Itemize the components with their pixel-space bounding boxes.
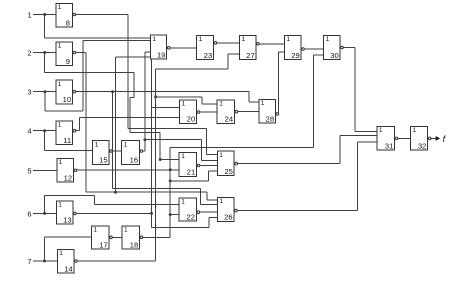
svg-text:31: 31 — [385, 141, 393, 150]
svg-text:1: 1 — [287, 36, 291, 43]
svg-text:27: 27 — [246, 51, 254, 60]
svg-text:1: 1 — [27, 11, 31, 20]
svg-text:29: 29 — [291, 51, 299, 60]
svg-text:1: 1 — [93, 226, 97, 233]
svg-text:1: 1 — [182, 100, 186, 107]
svg-text:1: 1 — [95, 141, 99, 148]
svg-text:1: 1 — [58, 122, 62, 129]
svg-text:1: 1 — [59, 159, 63, 166]
svg-text:4: 4 — [27, 127, 31, 136]
svg-text:28: 28 — [266, 114, 274, 123]
svg-text:1: 1 — [181, 153, 185, 160]
svg-text:1: 1 — [152, 36, 156, 43]
svg-text:1: 1 — [242, 36, 246, 43]
svg-text:11: 11 — [63, 136, 71, 145]
svg-text:25: 25 — [224, 167, 232, 176]
svg-text:1: 1 — [124, 141, 128, 148]
svg-text:9: 9 — [66, 57, 70, 66]
svg-text:3: 3 — [27, 88, 31, 97]
svg-text:19: 19 — [157, 51, 165, 60]
svg-text:1: 1 — [326, 36, 330, 43]
svg-text:14: 14 — [64, 265, 72, 274]
svg-text:24: 24 — [225, 115, 233, 124]
svg-text:1: 1 — [199, 36, 203, 43]
svg-text:21: 21 — [187, 168, 195, 177]
svg-text:1: 1 — [219, 198, 223, 205]
svg-text:26: 26 — [224, 213, 232, 222]
svg-text:16: 16 — [130, 156, 138, 165]
svg-text:18: 18 — [130, 241, 138, 250]
svg-text:7: 7 — [27, 257, 31, 266]
svg-text:1: 1 — [181, 198, 185, 205]
svg-text:1: 1 — [59, 250, 63, 257]
svg-text:10: 10 — [63, 95, 71, 104]
svg-text:1: 1 — [219, 100, 223, 107]
svg-text:20: 20 — [187, 115, 195, 124]
svg-text:6: 6 — [27, 209, 31, 218]
svg-text:1: 1 — [261, 100, 265, 107]
svg-text:5: 5 — [27, 166, 31, 175]
svg-text:2: 2 — [27, 49, 31, 58]
svg-text:15: 15 — [99, 156, 107, 165]
svg-text:23: 23 — [204, 51, 212, 60]
svg-text:1: 1 — [413, 127, 417, 134]
svg-text:13: 13 — [63, 216, 71, 225]
svg-text:1: 1 — [124, 226, 128, 233]
svg-text:32: 32 — [418, 141, 426, 150]
svg-text:1: 1 — [58, 202, 62, 209]
svg-text:8: 8 — [66, 18, 70, 27]
svg-text:12: 12 — [64, 174, 72, 183]
svg-text:1: 1 — [58, 4, 62, 11]
svg-text:1: 1 — [379, 127, 383, 134]
svg-text:30: 30 — [330, 51, 338, 60]
svg-text:22: 22 — [187, 212, 195, 221]
svg-text:1: 1 — [219, 152, 223, 159]
svg-text:1: 1 — [58, 81, 62, 88]
svg-text:17: 17 — [99, 241, 107, 250]
svg-text:1: 1 — [58, 43, 62, 50]
